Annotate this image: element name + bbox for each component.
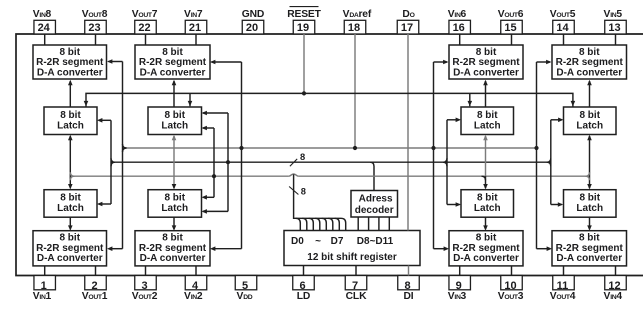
svg-text:9: 9 — [456, 280, 462, 292]
wires address decoder to shift register — [357, 217, 359, 231]
svg-text:8: 8 — [404, 280, 410, 292]
wire latch3 to DAC3 — [485, 217, 487, 229]
wire RESET pin 19 down — [303, 34, 305, 93]
svg-text:D-A converter: D-A converter — [453, 67, 519, 78]
svg-text:Latch: Latch — [161, 203, 188, 214]
svg-text:D-A converter: D-A converter — [140, 253, 206, 264]
fillet trunk3 west end — [70, 172, 74, 176]
junction dots on trunk1 — [239, 146, 243, 150]
pin 8 di — [398, 276, 420, 303]
wire trunk3 rail east — [299, 175, 590, 177]
D-A converter ch3 (8 bit R-2R) — [449, 231, 523, 266]
svg-text:D-A converter: D-A converter — [37, 67, 103, 78]
wire latch4 to DAC4 — [589, 217, 591, 229]
address decoder — [351, 191, 398, 218]
svg-text:D0: D0 — [291, 236, 304, 247]
pin 14 vout5 — [550, 9, 576, 34]
pin 18 vdaref — [343, 9, 372, 34]
svg-text:15: 15 — [504, 22, 516, 34]
pin 17 do — [397, 9, 419, 34]
pin 19 reset — [287, 7, 321, 34]
svg-text:Latch: Latch — [474, 121, 501, 132]
wire Do pin 17 to shift register — [407, 34, 409, 231]
bus hook lines into shift register — [296, 218, 301, 230]
svg-text:~: ~ — [315, 236, 321, 247]
wire CLK pin 7 to shift register — [355, 266, 357, 276]
wire latch8 to DAC8 — [69, 81, 71, 107]
D-A converter ch2 (8 bit R-2R) — [135, 231, 210, 266]
D-A converter ch8 (8 bit R-2R) — [33, 45, 107, 79]
svg-text:8 bit: 8 bit — [579, 110, 600, 121]
wire pin 3 to DAC — [145, 266, 147, 276]
arrow into latch5 top — [571, 101, 576, 106]
svg-text:12: 12 — [608, 280, 620, 292]
latch ch4 (8 bit) — [564, 190, 617, 218]
svg-text:Latch: Latch — [57, 121, 84, 132]
svg-text:LD: LD — [297, 291, 310, 302]
wire DAC7/DAC2 reference — [241, 62, 243, 249]
svg-text:8 bit: 8 bit — [60, 193, 81, 204]
pin 11 vout4 — [550, 276, 576, 303]
svg-text:8 bit: 8 bit — [164, 110, 185, 121]
wire DAC8/DAC1 reference — [122, 62, 124, 249]
svg-text:8 bit: 8 bit — [477, 110, 498, 121]
pin 7 clk — [345, 276, 367, 303]
bus slash 8 on vertical bus — [289, 187, 298, 195]
fillet trunk3 east end — [586, 172, 590, 176]
wire reset branch latch7 — [189, 93, 191, 106]
wire latch8/latch1 enable — [110, 120, 112, 204]
svg-text:8 bit: 8 bit — [477, 193, 498, 204]
wire pin 1 to DAC — [44, 266, 46, 276]
wire trunk1 VDAref rail — [123, 147, 537, 149]
svg-text:16: 16 — [453, 22, 465, 34]
wire trunk2 rail — [111, 161, 551, 163]
D-A converter ch1 (8 bit R-2R) — [33, 231, 107, 266]
svg-text:Latch: Latch — [57, 203, 84, 214]
pin 16 vin6 — [448, 9, 471, 34]
pin 23 vout8 — [82, 9, 108, 34]
wire VDAref pin 18 down — [354, 34, 356, 148]
svg-text:GND: GND — [242, 9, 264, 20]
svg-text:2: 2 — [91, 280, 97, 292]
pin 2 vout1 — [82, 276, 108, 303]
junction RESET/VDAref... dot — [302, 91, 306, 95]
D-A converter ch7 (8 bit R-2R) — [135, 45, 210, 79]
latch ch2 (8 bit) — [148, 190, 202, 218]
svg-text:1: 1 — [41, 280, 47, 292]
svg-text:8: 8 — [300, 152, 305, 162]
wire LD pin 6 to shift register — [303, 266, 305, 276]
wire DAC6/DAC3 reference — [433, 62, 435, 249]
svg-text:D8~D11: D8~D11 — [357, 236, 394, 247]
latch ch7 (8 bit) — [148, 107, 202, 135]
svg-text:6: 6 — [299, 280, 305, 292]
svg-text:Adress: Adress — [359, 194, 393, 205]
wire latch7-latch2 data link — [173, 136, 175, 188]
wire pin 15 to DAC — [511, 34, 513, 45]
svg-text:7: 7 — [352, 280, 358, 292]
wire pin 13 to DAC — [615, 34, 617, 45]
svg-text:Latch: Latch — [474, 203, 501, 214]
svg-text:5: 5 — [242, 280, 248, 292]
svg-text:20: 20 — [246, 22, 258, 34]
wire latch7/latch2 enable B — [213, 128, 215, 197]
wire pin 9 to DAC — [459, 266, 461, 276]
svg-text:Latch: Latch — [161, 121, 188, 132]
pin 9 vin3 — [448, 276, 471, 303]
wire pin 16 to DAC — [459, 34, 461, 45]
svg-text:DI: DI — [404, 291, 414, 302]
svg-text:D-A converter: D-A converter — [453, 253, 519, 264]
12 bit shift register — [284, 231, 420, 266]
wire DI pin 8 to shift register — [408, 266, 410, 276]
wire latch5/latch4 enable — [550, 120, 552, 205]
pin 5 vdd — [235, 276, 257, 303]
svg-text:decoder: decoder — [355, 205, 394, 216]
wire latch6/latch3 enable — [446, 120, 448, 205]
wire pin 14 to DAC — [563, 34, 565, 45]
wire DAC5/DAC4 reference — [536, 62, 538, 249]
latch ch5 (8 bit) — [564, 107, 617, 135]
latch ch8 (8 bit) — [44, 107, 97, 135]
svg-text:13: 13 — [608, 22, 620, 34]
wire latch2 to DAC2 — [173, 217, 175, 229]
svg-text:D-A converter: D-A converter — [556, 253, 622, 264]
wire pin 23 to DAC — [95, 34, 97, 45]
arrow into latch6 top — [468, 101, 473, 106]
latch ch6 (8 bit) — [461, 107, 514, 135]
wire pin 2 to DAC — [95, 266, 97, 276]
svg-text:8 bit: 8 bit — [60, 110, 81, 121]
pin 1 vin1 — [33, 276, 56, 303]
junction dot trunk2 — [226, 160, 230, 164]
svg-text:11: 11 — [557, 280, 569, 292]
wire 8-bit bus to shift register — [294, 174, 346, 230]
wire latch6-latch3 data link — [485, 136, 487, 176]
svg-text:19: 19 — [297, 22, 309, 34]
pin 21 vin7 — [184, 9, 207, 34]
svg-text:Latch: Latch — [576, 203, 603, 214]
wire trunk3 rail west — [70, 175, 288, 177]
latch ch1 (8 bit) — [44, 190, 97, 218]
svg-text:Latch: Latch — [576, 121, 603, 132]
svg-text:3: 3 — [141, 280, 147, 292]
latch ch3 (8 bit) — [461, 190, 514, 218]
pin 13 vin5 — [603, 9, 626, 34]
pin 3 vout2 — [132, 276, 158, 303]
svg-text:CLK: CLK — [346, 291, 367, 302]
pin 10 vout3 — [498, 276, 524, 303]
svg-text:14: 14 — [556, 22, 569, 34]
wire latch1 to DAC1 — [69, 217, 71, 229]
svg-text:8 bit: 8 bit — [579, 193, 600, 204]
wire pin 4 to DAC — [195, 266, 197, 276]
wire pin 24 to DAC — [44, 34, 46, 45]
wire trunk3 hump at bus branch — [289, 174, 299, 176]
pin 4 vin2 — [184, 276, 207, 303]
svg-text:D-A converter: D-A converter — [556, 67, 622, 78]
junction dot trunk3 — [212, 174, 216, 178]
wire pin 12 to DAC — [615, 266, 617, 276]
svg-text:8 bit: 8 bit — [164, 193, 185, 204]
D-A converter ch4 (8 bit R-2R) — [552, 231, 627, 266]
svg-text:24: 24 — [38, 22, 51, 34]
svg-text:12 bit shift register: 12 bit shift register — [307, 252, 397, 263]
svg-text:18: 18 — [348, 22, 360, 34]
wire pin 10 to DAC — [511, 266, 513, 276]
wire latch7/latch2 enable A — [227, 113, 229, 211]
pin 15 vout6 — [498, 9, 524, 34]
svg-text:RESET: RESET — [287, 9, 321, 20]
pin 6 ld — [293, 276, 315, 303]
svg-text:D7: D7 — [331, 236, 344, 247]
pin 22 vout7 — [132, 9, 158, 34]
wire pin 11 to DAC — [563, 266, 565, 276]
svg-text:4: 4 — [192, 280, 199, 292]
svg-text:21: 21 — [189, 22, 201, 34]
svg-text:22: 22 — [138, 22, 150, 34]
bus slash 8 on trunk2 — [290, 159, 297, 166]
wire latch8-latch1 data link — [69, 136, 71, 188]
pin 20 gnd — [242, 9, 264, 34]
pin 24 vin8 — [33, 9, 56, 34]
pin 12 vin4 — [603, 276, 626, 303]
wire reset branch latch6 — [469, 93, 471, 106]
svg-text:17: 17 — [401, 22, 413, 34]
svg-text:D-A converter: D-A converter — [140, 67, 206, 78]
D-A converter ch6 (8 bit R-2R) — [449, 45, 523, 79]
svg-text:23: 23 — [88, 22, 100, 34]
wire pin 21 to DAC — [195, 34, 197, 45]
outer chip boundary — [16, 34, 643, 276]
wire latch6 to DAC6 — [485, 81, 487, 107]
svg-text:8: 8 — [301, 187, 306, 197]
wire RESET distribution — [86, 93, 573, 107]
wire trunk2 to address decoder with fillet — [370, 162, 374, 190]
arrow into latch7 top — [188, 101, 193, 106]
wire pin 22 to DAC — [145, 34, 147, 45]
D-A converter ch5 (8 bit R-2R) — [552, 45, 627, 79]
wire latch5-latch4 data link — [589, 136, 591, 188]
wire latch7 to DAC7 — [173, 81, 175, 107]
svg-text:10: 10 — [504, 280, 516, 292]
arrow into latch8 top — [84, 101, 89, 106]
svg-text:D-A converter: D-A converter — [37, 253, 103, 264]
wire latch5 to DAC5 — [589, 81, 591, 107]
